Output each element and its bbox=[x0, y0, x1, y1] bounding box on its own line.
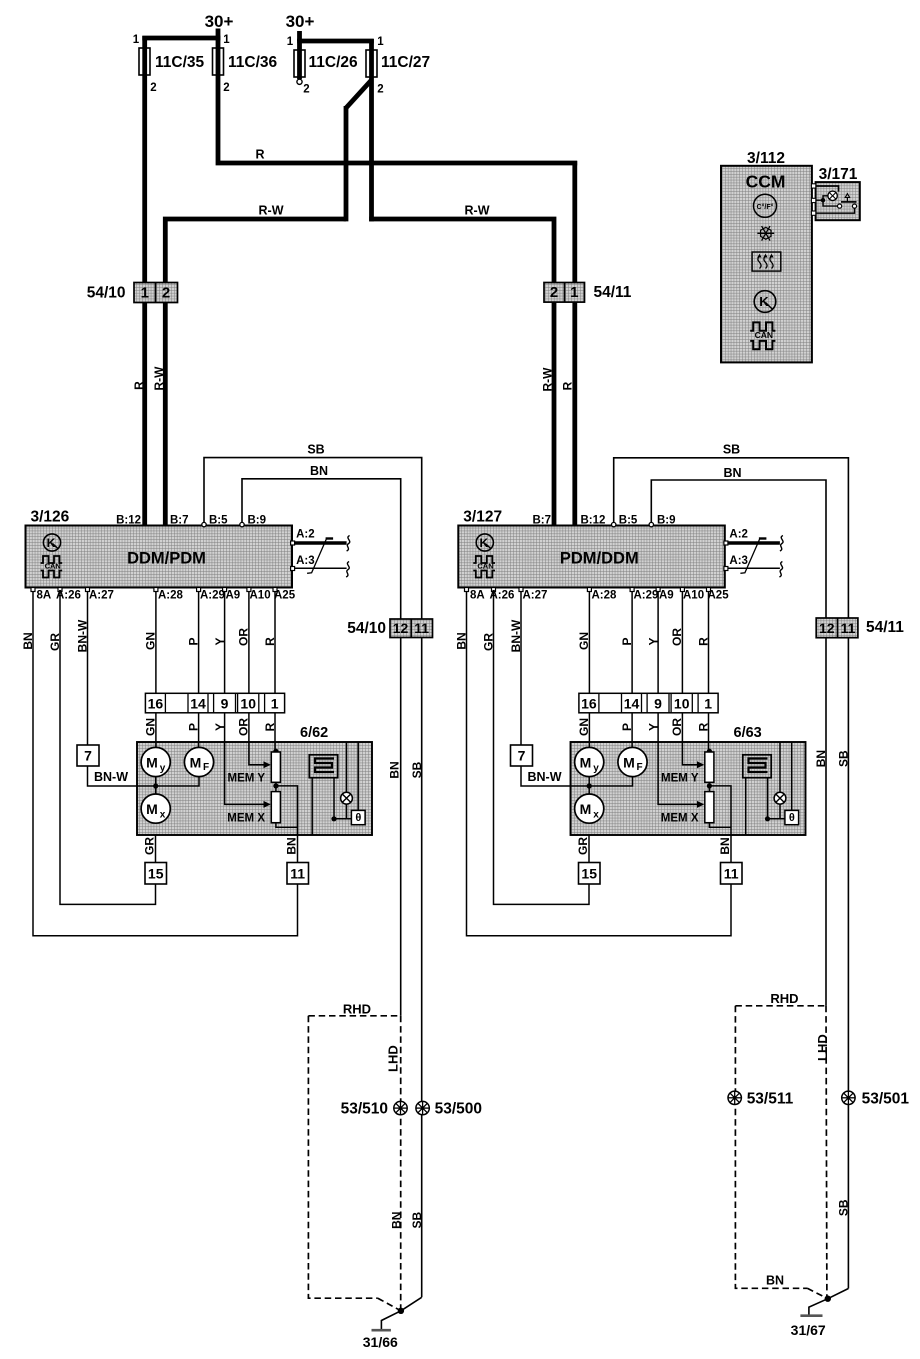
arrowhead into MEM Y (L) bbox=[264, 761, 271, 768]
svg-text:B:12: B:12 bbox=[581, 515, 606, 527]
svg-text:R: R bbox=[263, 722, 277, 731]
svg-text:B:5: B:5 bbox=[209, 515, 228, 527]
svg-text:BN: BN bbox=[718, 837, 732, 854]
heater lead down to thermostat line (6/63) bbox=[767, 778, 769, 819]
svg-text:8A: 8A bbox=[37, 590, 52, 602]
svg-text:B:9: B:9 bbox=[657, 515, 676, 527]
arrowhead into MEM X (L) bbox=[264, 801, 271, 808]
svg-text:11C/36: 11C/36 bbox=[228, 54, 278, 71]
svg-text:11: 11 bbox=[841, 620, 856, 636]
wire SB right diagonal into ground junction 31/67 bbox=[828, 1289, 849, 1299]
junction dot BN-W / motor vertical (L) bbox=[153, 783, 158, 788]
pin circles B:5 B:9 of 3/127 bbox=[612, 522, 616, 526]
wire GR from pin A:26 down and right to box 15 (R) bbox=[494, 589, 590, 904]
wire OR from pin A10 into mirror unit to MEM Y (R) bbox=[682, 589, 699, 765]
ground symbol 31/67 bbox=[800, 1314, 822, 1317]
wire My to Mx vertical (L) bbox=[155, 777, 157, 795]
svg-text:CAN: CAN bbox=[755, 330, 773, 340]
wire R from pin A25 to MEM Y top (L) bbox=[274, 589, 276, 753]
svg-text:R-W: R-W bbox=[465, 204, 490, 218]
svg-text:SB: SB bbox=[307, 443, 324, 457]
junction dot at 31/67 bbox=[825, 1296, 831, 1302]
svg-text:1: 1 bbox=[704, 695, 712, 711]
wire fuse 11C/26 output stub (open end) bbox=[297, 39, 302, 79]
lamp lower lead (6/62) bbox=[346, 804, 348, 819]
svg-text:1: 1 bbox=[141, 285, 149, 302]
svg-text:8A: 8A bbox=[470, 590, 485, 602]
svg-text:OR: OR bbox=[670, 718, 684, 736]
lamp feed wire (6/62) bbox=[346, 742, 348, 792]
illumination lamp (6/62) bbox=[341, 792, 353, 804]
svg-text:R: R bbox=[561, 381, 575, 390]
switch contact right inside 3/171 bbox=[852, 204, 856, 208]
svg-text:R: R bbox=[697, 722, 711, 731]
svg-text:R-W: R-W bbox=[152, 366, 166, 391]
svg-text:1: 1 bbox=[377, 36, 384, 48]
terminal open end below fuse 11C/26 bbox=[297, 79, 302, 84]
svg-text:A9: A9 bbox=[659, 590, 674, 602]
ground lead 31/67 bbox=[809, 1299, 828, 1316]
junction dot between MEM Y and MEM X (L) bbox=[273, 783, 278, 788]
svg-text:53/510: 53/510 bbox=[341, 1101, 388, 1118]
svg-text:A:29: A:29 bbox=[200, 590, 225, 602]
svg-text:BN-W: BN-W bbox=[94, 770, 128, 784]
svg-text:6/63: 6/63 bbox=[734, 725, 762, 741]
svg-text:A10: A10 bbox=[683, 590, 704, 602]
wire Y from pin A9 into mirror unit to MEM X (L) bbox=[225, 589, 266, 804]
svg-text:M: M bbox=[146, 755, 158, 771]
svg-text:2: 2 bbox=[223, 82, 229, 94]
svg-text:K: K bbox=[47, 536, 56, 550]
splice 53/501 bbox=[842, 1091, 855, 1104]
svg-text:3/126: 3/126 bbox=[31, 509, 70, 526]
svg-text:2: 2 bbox=[150, 82, 156, 94]
memory potentiometer MEM Y (6/63) bbox=[705, 752, 714, 782]
connector 54/10 pins 12 11 bbox=[390, 619, 433, 638]
wire BN-W from pin A:27 down to box 7 (R) bbox=[520, 589, 522, 746]
svg-text:2: 2 bbox=[303, 84, 309, 96]
svg-text:BN: BN bbox=[285, 837, 299, 854]
svg-text:RHD: RHD bbox=[770, 991, 798, 1006]
pin A:2 of 3/126 with mirror-fold output wire bbox=[291, 541, 295, 545]
switch actuator arrow inside 3/171 bbox=[846, 198, 848, 202]
wire SB from 3/126 B:5 up and right, down to connector 54/10 pin 11 bbox=[204, 458, 422, 1298]
svg-text:15: 15 bbox=[581, 866, 597, 882]
wire 30+ bus right (to 11C/26 and 11C/27) bbox=[297, 31, 302, 41]
switch bar inside 3/171 bbox=[841, 201, 857, 203]
svg-text:54/11: 54/11 bbox=[594, 284, 632, 301]
svg-text:SB: SB bbox=[837, 750, 851, 767]
svg-text:3/171: 3/171 bbox=[819, 166, 858, 183]
svg-text:P: P bbox=[620, 637, 634, 645]
svg-text:A:3: A:3 bbox=[729, 555, 748, 567]
svg-text:SB: SB bbox=[410, 761, 424, 778]
svg-text:15: 15 bbox=[148, 866, 164, 882]
svg-text:BN: BN bbox=[455, 632, 469, 649]
svg-text:A25: A25 bbox=[274, 590, 296, 602]
switch contact left inside 3/171 bbox=[838, 204, 842, 208]
dashed RHD variant box left bbox=[308, 1015, 400, 1017]
wire BN from pin 8A down and right to box 11 (L) bbox=[33, 589, 298, 936]
fuse 11C/27 bbox=[366, 50, 377, 77]
connector strip 16/14/9/10/1 (R) bbox=[579, 693, 718, 713]
wire SB from 3/127 B:5 up and right, down to connector 54/11 pin 11 bbox=[614, 458, 849, 1289]
svg-text:11C/27: 11C/27 bbox=[381, 54, 430, 71]
in-line connector box 11 (L) bbox=[287, 863, 309, 885]
memory potentiometer MEM X (6/62) bbox=[271, 792, 280, 823]
svg-text:A:27: A:27 bbox=[523, 590, 548, 602]
wire fuse 11C/27 output down to R-W junction bbox=[369, 39, 374, 221]
wire junction to lamp inside 3/171 bbox=[823, 196, 828, 200]
svg-text:MEM Y: MEM Y bbox=[661, 773, 699, 785]
wire R-W right run to connector 54/11 pin 2 bbox=[369, 219, 554, 284]
svg-text:31/66: 31/66 bbox=[363, 1334, 398, 1350]
svg-text:B:9: B:9 bbox=[248, 515, 267, 527]
wire loop MEM junction right and down to box 11 (R) bbox=[709, 786, 731, 863]
wire BN from 3/126 B:9 up and right, down to connector 54/10 pin 12 (solid part) bbox=[242, 479, 401, 1016]
wire right contact to pin 3 inside 3/171 bbox=[816, 208, 855, 213]
svg-text:GN: GN bbox=[577, 632, 591, 650]
svg-text:SB: SB bbox=[837, 1199, 851, 1216]
wire pin 2 to junction inside 3/171 bbox=[816, 199, 823, 201]
svg-text:A10: A10 bbox=[250, 590, 271, 602]
wire BN-W from pin A:27 down to box 7 (L) bbox=[87, 589, 89, 746]
svg-text:30+: 30+ bbox=[205, 12, 234, 31]
arrowhead into MEM X (R) bbox=[697, 801, 704, 808]
wire branch diagonal from 11C/27 to left R-W run bbox=[346, 80, 372, 108]
svg-text:53/511: 53/511 bbox=[747, 1090, 794, 1107]
svg-text:CAN: CAN bbox=[45, 562, 61, 571]
pin A:3 of 3/127 with wire bbox=[724, 567, 728, 571]
motor My (6/63) bbox=[575, 747, 604, 776]
svg-text:R: R bbox=[697, 637, 711, 646]
pin squares on bottom of module (3/127) bbox=[465, 588, 469, 592]
svg-text:M: M bbox=[623, 755, 635, 771]
wire fuse 11C/36 output down, R bus to right, down to connector 54/11 pin 1 bbox=[218, 38, 577, 163]
wire junction down to switch contact inside 3/171 bbox=[823, 200, 838, 206]
ground lead 31/66 bbox=[381, 1311, 401, 1330]
break symbol on A:2 wire (3/127) bbox=[780, 536, 783, 552]
break symbol on A:3 wire (3/126) bbox=[346, 562, 349, 578]
svg-text:C°/F°: C°/F° bbox=[757, 203, 774, 211]
in-line connector box 11 (R) bbox=[721, 863, 743, 885]
svg-text:A25: A25 bbox=[708, 590, 730, 602]
svg-text:Y: Y bbox=[647, 637, 661, 645]
motor MF (6/63) bbox=[618, 747, 647, 776]
wire R from 54/10 pin 1 to 3/126 B:12 bbox=[142, 303, 147, 527]
control module 3/127 body bbox=[458, 526, 725, 588]
junction dot inside 3/171 bbox=[821, 198, 825, 202]
svg-text:CCM: CCM bbox=[746, 172, 786, 192]
svg-text:1: 1 bbox=[570, 284, 578, 301]
svg-text:11: 11 bbox=[290, 866, 305, 882]
svg-text:A:26: A:26 bbox=[56, 590, 81, 602]
motor Mx (6/62) bbox=[141, 794, 170, 823]
svg-text:BN: BN bbox=[21, 632, 35, 649]
svg-text:M: M bbox=[190, 755, 202, 771]
svg-text:53/501: 53/501 bbox=[862, 1090, 910, 1107]
fuse 11C/36 bbox=[213, 48, 224, 75]
wire MEM X bottom loop (L) bbox=[276, 823, 298, 828]
svg-text:54/11: 54/11 bbox=[866, 619, 904, 636]
ground symbol 31/66 bbox=[372, 1329, 391, 1332]
svg-text:3/112: 3/112 bbox=[747, 150, 785, 167]
svg-text:A:27: A:27 bbox=[89, 590, 114, 602]
wire box 15 to mirror unit Mx (GR) (L) bbox=[155, 835, 157, 863]
wire MEM Y bottom to MEM X top (L) bbox=[275, 782, 277, 791]
svg-text:LHD: LHD bbox=[385, 1045, 400, 1072]
in-line connector box 7 (L) bbox=[77, 745, 99, 766]
svg-text:x: x bbox=[160, 810, 166, 821]
svg-text:BN: BN bbox=[310, 464, 328, 478]
svg-text:F: F bbox=[636, 762, 642, 773]
svg-text:OR: OR bbox=[670, 628, 684, 646]
svg-text:CAN: CAN bbox=[477, 562, 493, 571]
svg-text:MEM X: MEM X bbox=[227, 813, 265, 825]
svg-text:54/10: 54/10 bbox=[347, 620, 386, 637]
svg-text:1: 1 bbox=[287, 36, 294, 48]
svg-text:y: y bbox=[593, 763, 599, 774]
K-line symbol in CCM bbox=[754, 291, 776, 313]
svg-text:P: P bbox=[187, 637, 201, 645]
svg-text:53/500: 53/500 bbox=[435, 1101, 482, 1118]
svg-text:OR: OR bbox=[237, 628, 251, 646]
svg-text:B:7: B:7 bbox=[170, 515, 189, 527]
svg-text:R-W: R-W bbox=[541, 367, 555, 392]
svg-text:PDM/DDM: PDM/DDM bbox=[560, 550, 639, 568]
svg-text:10: 10 bbox=[240, 695, 256, 711]
wire fuse 11C/35 output R down to connector 54/10 pin 1 bbox=[142, 36, 147, 284]
pin A:2 of 3/127 with mirror-fold output wire bbox=[724, 541, 728, 545]
svg-text:SB: SB bbox=[410, 1212, 424, 1229]
svg-text:BN: BN bbox=[389, 1212, 403, 1229]
svg-text:LHD: LHD bbox=[815, 1034, 830, 1061]
svg-text:y: y bbox=[160, 763, 166, 774]
tick mark above A:2 wire (3/127) bbox=[759, 537, 767, 539]
svg-text:R: R bbox=[263, 637, 277, 646]
connector 54/11 pins 2 1 bbox=[544, 283, 585, 303]
break symbol on A:3 wire (3/127) bbox=[779, 562, 782, 578]
junction dot BN-W / motor vertical (R) bbox=[587, 783, 592, 788]
wire My to Mx vertical (R) bbox=[588, 777, 590, 795]
wire R-W left run to connector 54/10 pin 2 bbox=[165, 219, 346, 284]
thermostat feed wire (6/62) bbox=[357, 742, 359, 810]
svg-text:R: R bbox=[255, 148, 264, 162]
svg-text:Y: Y bbox=[647, 723, 661, 731]
svg-text:14: 14 bbox=[624, 695, 640, 711]
svg-text:BN: BN bbox=[388, 761, 402, 778]
in-line connector box 15 (L) bbox=[145, 863, 167, 885]
K-line symbol in 3/126 bbox=[43, 534, 60, 551]
svg-text:BN: BN bbox=[723, 466, 741, 480]
heater element (6/62) bbox=[309, 755, 337, 778]
svg-text:9: 9 bbox=[221, 695, 229, 711]
svg-text:12: 12 bbox=[393, 620, 409, 636]
svg-text:2: 2 bbox=[377, 84, 383, 96]
svg-text:7: 7 bbox=[84, 748, 92, 764]
svg-text:1: 1 bbox=[223, 34, 230, 46]
wire heater junction to thermostat box (6/63) bbox=[768, 818, 785, 820]
heated seat / defrost symbol in CCM bbox=[752, 252, 781, 271]
svg-text:A:3: A:3 bbox=[296, 555, 315, 567]
svg-text:GN: GN bbox=[144, 718, 158, 736]
wire BN from 3/127 B:9 up and right, down to connector 54/11 pin 12 (solid part) bbox=[651, 480, 826, 1006]
svg-text:14: 14 bbox=[190, 695, 206, 711]
svg-text:K: K bbox=[759, 294, 769, 309]
svg-text:BN-W: BN-W bbox=[528, 770, 562, 784]
junction dot at MEM Y top (R) bbox=[707, 749, 712, 754]
svg-text:11: 11 bbox=[724, 866, 739, 882]
memory potentiometer MEM X (6/63) bbox=[705, 792, 714, 823]
dashed RHD variant box right bbox=[735, 1005, 826, 1007]
svg-text:GR: GR bbox=[48, 633, 62, 651]
svg-text:θ: θ bbox=[789, 812, 795, 824]
illumination lamp (6/63) bbox=[774, 792, 786, 804]
variant link slash between A:2 and A:3 (3/126) bbox=[307, 538, 327, 573]
wire top feed inside 3/171 bbox=[816, 186, 839, 192]
svg-text:16: 16 bbox=[148, 695, 164, 711]
CAN symbol in CCM bbox=[750, 322, 775, 330]
svg-text:R-W: R-W bbox=[259, 204, 284, 218]
svg-text:M: M bbox=[580, 801, 592, 817]
svg-text:A:26: A:26 bbox=[490, 590, 515, 602]
wire R-W from 54/10 pin 2 to 3/126 B:7 bbox=[163, 303, 168, 527]
wire R from pin A25 to MEM Y top (R) bbox=[708, 589, 710, 753]
svg-text:SB: SB bbox=[723, 443, 740, 457]
svg-text:P: P bbox=[187, 723, 201, 731]
connector 54/10 pins 1 2 bbox=[134, 283, 178, 303]
pin A:3 of 3/126 with wire bbox=[291, 567, 295, 571]
wire MEM X bottom loop (R) bbox=[709, 823, 731, 828]
variant link slash between A:2 and A:3 (3/127) bbox=[740, 538, 760, 573]
svg-text:B:7: B:7 bbox=[532, 515, 551, 527]
K-line symbol in 3/127 bbox=[476, 534, 493, 551]
svg-text:B:12: B:12 bbox=[116, 515, 141, 527]
svg-text:GR: GR bbox=[143, 837, 157, 855]
in-line connector box 7 (R) bbox=[511, 745, 533, 766]
splice 53/510 bbox=[394, 1101, 407, 1114]
svg-text:11C/26: 11C/26 bbox=[309, 54, 359, 71]
svg-text:30+: 30+ bbox=[286, 12, 315, 31]
svg-text:7: 7 bbox=[518, 748, 526, 764]
climate control module 3/112 body bbox=[721, 166, 812, 363]
connector strip 16/14/9/10/1 (L) bbox=[145, 693, 284, 713]
svg-text:2: 2 bbox=[162, 285, 170, 302]
motor MF (6/62) bbox=[184, 747, 213, 776]
svg-text:θ: θ bbox=[355, 812, 361, 824]
svg-text:GR: GR bbox=[576, 837, 590, 855]
wire GN from pin A:28 to motor My (R) bbox=[588, 589, 590, 748]
wire P from pin A:29 to motor MF (R) bbox=[631, 589, 633, 748]
svg-text:54/10: 54/10 bbox=[87, 285, 126, 302]
svg-text:P: P bbox=[620, 723, 634, 731]
svg-text:A:28: A:28 bbox=[592, 590, 618, 602]
svg-text:GR: GR bbox=[482, 633, 496, 651]
splice 53/500 bbox=[416, 1101, 429, 1114]
mirror unit 6/63 body bbox=[571, 742, 806, 835]
junction dot heater lead (6/62) bbox=[331, 816, 336, 821]
CAN symbol in 3/127 bbox=[473, 556, 495, 563]
svg-text:MEM X: MEM X bbox=[661, 813, 699, 825]
mirror fold switch module 3/171 body bbox=[816, 182, 860, 220]
control module 3/126 body bbox=[26, 526, 293, 588]
thermostat feed wire (6/63) bbox=[791, 742, 793, 810]
pin tabs between CCM and 3/171 bbox=[811, 184, 815, 188]
svg-text:A:2: A:2 bbox=[296, 529, 315, 541]
svg-text:BN-W: BN-W bbox=[509, 619, 523, 652]
svg-text:31/67: 31/67 bbox=[791, 1322, 826, 1338]
svg-text:A:2: A:2 bbox=[729, 529, 748, 541]
svg-text:Y: Y bbox=[213, 723, 227, 731]
break symbol on A:2 wire (3/126) bbox=[347, 536, 350, 552]
junction dot between MEM Y and MEM X (R) bbox=[707, 783, 712, 788]
svg-text:1: 1 bbox=[133, 34, 140, 46]
heater left lead to unit frame (6/63) bbox=[745, 778, 747, 835]
svg-text:MEM Y: MEM Y bbox=[228, 773, 266, 785]
svg-text:A:29: A:29 bbox=[634, 590, 659, 602]
wire OR from pin A10 into mirror unit to MEM Y (L) bbox=[249, 589, 266, 765]
svg-text:BN-W: BN-W bbox=[76, 619, 90, 652]
arrowhead into MEM Y (R) bbox=[697, 761, 704, 768]
svg-text:9: 9 bbox=[654, 695, 662, 711]
lamp feed wire (6/63) bbox=[779, 742, 781, 792]
motor My (6/62) bbox=[141, 747, 170, 776]
svg-text:11C/35: 11C/35 bbox=[155, 54, 205, 71]
wire GR from pin A:26 down and right to box 15 (L) bbox=[60, 589, 156, 904]
tick mark above A:2 wire (3/126) bbox=[326, 537, 334, 539]
svg-text:16: 16 bbox=[581, 695, 597, 711]
snowflake AC symbol in CCM bbox=[757, 232, 774, 234]
CAN symbol in 3/126 bbox=[41, 556, 63, 563]
svg-text:10: 10 bbox=[674, 695, 690, 711]
svg-text:A9: A9 bbox=[226, 590, 241, 602]
wire MEM Y bottom to MEM X top (R) bbox=[708, 782, 710, 791]
svg-text:1: 1 bbox=[271, 695, 279, 711]
svg-text:3/127: 3/127 bbox=[463, 509, 502, 526]
svg-text:OR: OR bbox=[237, 718, 251, 736]
mirror unit 6/62 body bbox=[137, 742, 372, 835]
wire R from 54/11 pin 1 to 3/127 B:12 bbox=[572, 302, 577, 526]
fuse 11C/35 bbox=[139, 48, 150, 75]
fuse 11C/26 bbox=[294, 50, 305, 77]
svg-text:Y: Y bbox=[213, 637, 227, 645]
wire R-W from 54/11 pin 2 to 3/127 B:7 bbox=[552, 302, 557, 526]
svg-text:12: 12 bbox=[819, 620, 835, 636]
wire P from pin A:29 to motor MF (L) bbox=[198, 589, 200, 748]
thermostat theta box (6/63) bbox=[785, 810, 799, 824]
wire box 15 to mirror unit Mx (GR) (R) bbox=[588, 835, 590, 863]
heater element (6/63) bbox=[743, 755, 771, 778]
svg-text:DDM/PDM: DDM/PDM bbox=[127, 550, 206, 568]
svg-text:RHD: RHD bbox=[343, 1001, 371, 1016]
svg-text:A:28: A:28 bbox=[158, 590, 184, 602]
memory potentiometer MEM Y (6/62) bbox=[271, 752, 280, 782]
svg-text:M: M bbox=[146, 801, 158, 817]
svg-text:BN: BN bbox=[766, 1274, 784, 1288]
heater lead down to thermostat line (6/62) bbox=[333, 778, 335, 819]
lamp inside 3/171 bbox=[828, 191, 837, 200]
wire BN-W from box 7 down and right to motor junction (R) bbox=[521, 766, 633, 787]
svg-text:B:5: B:5 bbox=[619, 515, 638, 527]
pin squares on bottom of module (3/126) bbox=[31, 588, 35, 592]
wire BN right dashed (RHD variant) down to ground junction bbox=[825, 1006, 828, 1299]
wire SB diagonal into ground junction 31/66 bbox=[401, 1297, 422, 1311]
wire loop MEM junction right and down to box 11 (L) bbox=[276, 786, 298, 863]
svg-text:F: F bbox=[203, 762, 209, 773]
wire 30+ bus left (to 11C/35 and 11C/36) bbox=[216, 29, 221, 39]
wire heater junction to thermostat box (6/62) bbox=[334, 818, 351, 820]
svg-text:GN: GN bbox=[144, 632, 158, 650]
